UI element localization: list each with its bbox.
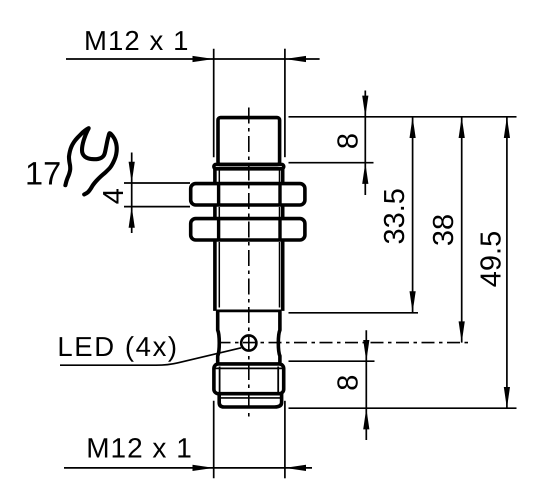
extension line left of head	[213, 49, 215, 158]
svg-text:M12 x 1: M12 x 1	[86, 433, 193, 464]
extension line right of head	[284, 49, 286, 158]
dim 4: up arrow	[129, 207, 135, 228]
dim M12 x 1 bottom: left-pointing arrow	[285, 465, 306, 471]
dim 38: down arrow	[459, 321, 465, 342]
svg-text:49.5: 49.5	[476, 231, 508, 287]
svg-text:LED (4x): LED (4x)	[57, 331, 178, 362]
LED hole circle	[241, 335, 256, 350]
step line at barrel bottom	[216, 309, 281, 312]
dim 49.5: down arrow	[504, 387, 510, 408]
hex nut 1	[191, 184, 305, 205]
dim 8 bottom: dimension line	[365, 330, 367, 440]
svg-text:M12 x 1: M12 x 1	[84, 25, 190, 56]
dim 8 top: up arrow	[362, 163, 368, 184]
dim 8 top: down arrow	[362, 96, 368, 117]
LED band right edge	[278, 311, 280, 363]
right extension line (step)	[289, 312, 419, 314]
connector block	[214, 364, 284, 394]
wrench icon	[65, 128, 116, 194]
svg-text:17: 17	[25, 155, 61, 191]
svg-text:4: 4	[98, 188, 130, 204]
svg-text:33.5: 33.5	[379, 188, 411, 244]
right extension line top (head top)	[289, 116, 517, 118]
svg-text:38: 38	[428, 214, 460, 246]
dim 49.5: dimension line	[506, 117, 508, 408]
bottom collar	[219, 394, 281, 407]
dim 4 (nut thickness): extension lines	[124, 182, 190, 184]
dim 4: down arrow	[129, 162, 135, 183]
hex nut 2	[191, 219, 305, 240]
sensor head block	[218, 118, 280, 165]
dim 38: up arrow	[459, 117, 465, 138]
LED leader line	[60, 348, 241, 365]
horizontal centerline through LED	[218, 342, 469, 344]
dim M12 x 1 top: dimension line	[66, 58, 320, 60]
dim M12 x 1 top: left-pointing arrow	[285, 56, 306, 62]
right extension line (flange top)	[289, 162, 374, 164]
dim M12 x 1 bottom: right-pointing arrow	[193, 465, 214, 471]
dim M12 x 1 top: right-pointing arrow	[193, 56, 214, 62]
dim 33.5: up arrow	[410, 117, 416, 138]
svg-text:8: 8	[332, 133, 364, 149]
dim 33.5: dimension line	[412, 117, 414, 313]
dim 8 bottom: down arrow	[363, 340, 369, 361]
dim 33.5: down arrow	[410, 291, 416, 312]
bottom extension line right	[284, 401, 286, 479]
dim M12 x 1 bottom: dimension line	[64, 467, 312, 469]
barrel between nuts	[213, 205, 217, 219]
LED band left edge	[218, 311, 220, 363]
main threaded barrel	[213, 240, 217, 311]
threaded barrel upper section	[213, 168, 217, 184]
flange below head	[214, 164, 284, 168]
dim 4: dimension line	[131, 153, 133, 234]
vertical centerline	[248, 108, 250, 422]
right extension line bottom (sensor bottom)	[289, 407, 517, 409]
bottom extension line left	[213, 401, 215, 479]
dim 38: dimension line	[461, 117, 463, 343]
svg-text:8: 8	[332, 375, 364, 391]
dim 49.5: up arrow	[504, 117, 510, 138]
dim 8 bottom: up arrow	[363, 408, 369, 429]
right extension line (connector top)	[289, 360, 375, 362]
dim 8 top: dimension line	[364, 91, 366, 196]
